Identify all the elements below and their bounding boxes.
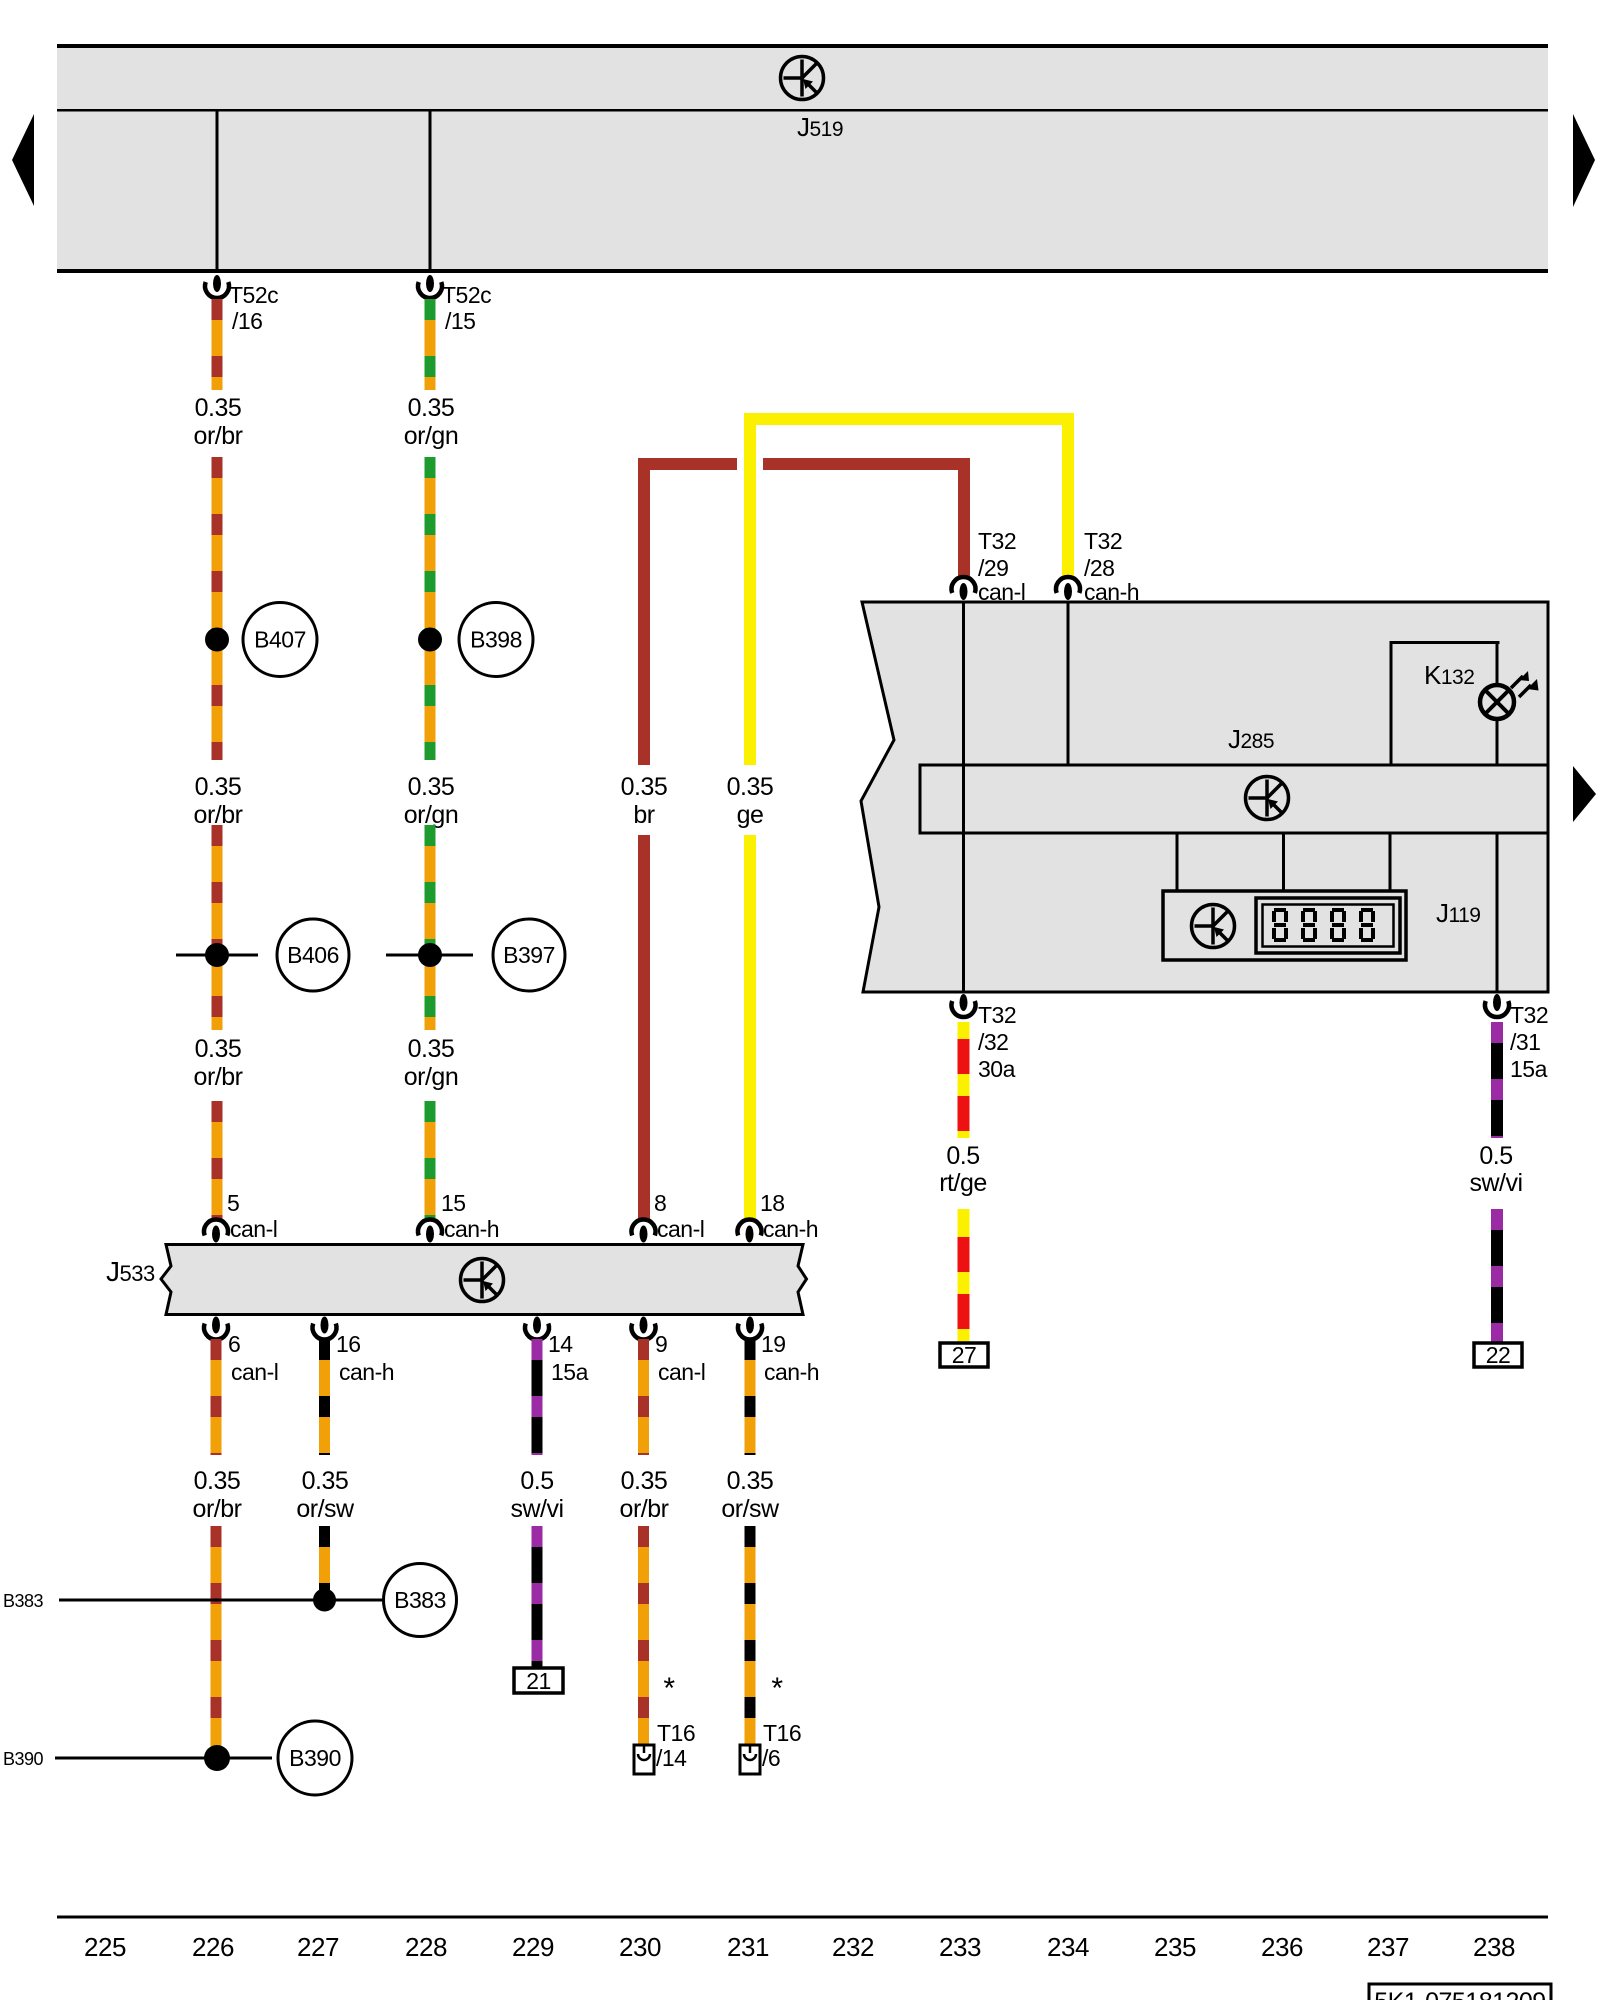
connector J533 pin 9 [632,1317,656,1340]
K132 sub-box top line [1390,641,1500,644]
page continuation arrow right mid [1573,766,1596,822]
svg-text:27: 27 [952,1342,977,1368]
svg-text:or/br: or/br [194,801,243,829]
svg-text:0.35: 0.35 [621,1467,668,1495]
wire 0.35 or/br seg3 [212,825,223,1030]
wire 0.5 sw/vi below J533 seg1 [532,1339,543,1455]
svg-text:0.35: 0.35 [194,1467,241,1495]
wire 0.35 or/sw pin19 seg1 [745,1339,756,1455]
svg-text:5K1-075181209: 5K1-075181209 [1374,1988,1545,2000]
svg-text:230: 230 [619,1932,661,1962]
connector T52c/15 [418,275,442,298]
svg-text:/15: /15 [445,308,475,334]
svg-text:234: 234 [1047,1932,1089,1962]
node circle B398 [459,603,533,677]
wire 0.5 sw/vi below J533 seg2 [532,1526,543,1669]
svg-text:0.35: 0.35 [195,394,242,422]
net line B390 [55,1757,272,1760]
svg-text:*: * [663,1672,675,1705]
bottom current track rail [57,1916,1548,1919]
wire 0.35 br drop to T32/29 [958,458,970,578]
wire 0.35 br horizontal left part [638,458,737,470]
svg-text:30a: 30a [978,1056,1016,1082]
node circle B397 [493,919,565,991]
svg-text:226: 226 [192,1932,234,1962]
J119 display inner frame [1263,905,1394,947]
wire 0.5 sw/vi seg1 [1491,1022,1503,1138]
wire 0.35 or/br pin9 seg1 [638,1339,649,1455]
svg-text:sw/vi: sw/vi [510,1495,563,1523]
svg-text:235: 235 [1154,1932,1196,1962]
connector J533 pin 8 [632,1219,656,1242]
node B397 stub line [386,954,473,957]
wire 0.35 or/gn seg4 [425,1101,436,1221]
connector T32/29 [952,577,976,600]
svg-text:can-h: can-h [763,1216,818,1242]
wire 0.35 or/br below J533 seg2 [211,1526,222,1752]
svg-text:/31: /31 [1510,1029,1540,1055]
wire 0.35 or/gn seg2 [425,457,436,760]
svg-text:0.35: 0.35 [727,1467,774,1495]
J119 connector line 3 [1389,833,1392,891]
svg-text:can-l: can-l [978,579,1025,605]
svg-text:B383: B383 [3,1591,44,1611]
connector T32/32 [952,994,976,1017]
svg-text:B406: B406 [287,942,339,968]
svg-text:B407: B407 [254,627,306,653]
node circle B383 [384,1564,457,1637]
svg-text:14: 14 [548,1331,573,1357]
wire 0.35 ge vertical lower [744,835,756,1221]
J119 display outer frame [1256,898,1400,953]
part number box [1369,1984,1551,2000]
J519 internal wire to T52c/15 [429,110,432,273]
svg-text:0.35: 0.35 [408,1035,455,1063]
svg-text:0.35: 0.35 [195,1035,242,1063]
svg-text:sw/vi: sw/vi [1469,1169,1522,1197]
connector T16/6 box [740,1745,760,1774]
svg-text:or/sw: or/sw [296,1495,355,1523]
svg-text:J533: J533 [106,1256,155,1287]
J119 connector line 1 [1176,833,1179,891]
svg-text:/32: /32 [978,1029,1008,1055]
svg-text:225: 225 [84,1932,126,1962]
junction dot B397 [418,943,442,967]
CAN-bus symbol in J533 [461,1259,504,1302]
svg-text:0.35: 0.35 [302,1467,349,1495]
J285 inner strip top line [920,764,1548,767]
wire 0.35 br vertical lower [638,835,650,1221]
svg-text:0.35: 0.35 [621,773,668,801]
svg-text:232: 232 [832,1932,874,1962]
svg-text:B390: B390 [3,1749,44,1769]
K132 sub-box left line [1390,641,1393,765]
J519 bottom border [57,269,1548,273]
CAN-bus symbol in J519 [781,57,824,100]
wire 0.35 ge drop to T32/28 [1062,413,1074,578]
connector T52c/16 [205,275,229,298]
svg-text:0.5: 0.5 [1479,1142,1512,1170]
wire 0.35 or/br seg4 [212,1101,223,1221]
svg-text:*: * [771,1672,783,1705]
svg-text:238: 238 [1473,1932,1515,1962]
svg-text:233: 233 [939,1932,981,1962]
svg-text:or/sw: or/sw [721,1495,780,1523]
svg-text:231: 231 [727,1932,769,1962]
svg-text:T16: T16 [763,1720,801,1746]
svg-text:18: 18 [760,1190,785,1216]
svg-text:0.5: 0.5 [946,1142,979,1170]
J519 top border [57,44,1548,48]
svg-text:0.35: 0.35 [195,773,242,801]
svg-text:/14: /14 [656,1745,687,1771]
svg-text:can-h: can-h [764,1359,819,1385]
svg-text:T32: T32 [978,1002,1016,1028]
svg-text:19: 19 [761,1331,786,1357]
J285 line to T32/31 [1496,833,1499,992]
svg-text:22: 22 [1486,1342,1511,1368]
junction dot B398 [418,628,442,652]
connector J533 pin 15 [418,1219,442,1242]
wire 0.5 sw/vi seg2 [1491,1209,1503,1343]
svg-text:/28: /28 [1084,555,1114,581]
J285 inner strip bottom line [920,832,1548,835]
CAN-bus symbol in J119 [1192,905,1235,948]
svg-text:or/gn: or/gn [404,422,458,450]
svg-text:T32: T32 [1510,1002,1548,1028]
svg-text:or/br: or/br [193,1495,242,1523]
svg-text:16: 16 [336,1331,361,1357]
wire 0.5 rt/ge seg1 [958,1022,970,1138]
CAN-bus symbol in J285 [1246,777,1289,820]
svg-text:0.35: 0.35 [408,773,455,801]
svg-text:5: 5 [227,1190,239,1216]
svg-text:T32: T32 [1084,528,1122,554]
connector T16/14 box [634,1745,654,1774]
svg-text:can-h: can-h [339,1359,394,1385]
wire 0.35 or/br seg2 [212,457,223,760]
svg-text:or/br: or/br [620,1495,669,1523]
J285 line can-l through [962,602,965,992]
wire 0.35 or/br pin9 seg2 [638,1526,649,1745]
svg-text:can-h: can-h [1084,579,1139,605]
svg-text:or/br: or/br [194,1063,243,1091]
svg-text:T16: T16 [657,1720,695,1746]
terminal box 21 [514,1668,563,1693]
junction dot B383 [313,1589,336,1612]
junction dot B407 [205,628,229,652]
node circle B390 [278,1721,352,1795]
svg-text:can-l: can-l [657,1216,704,1242]
connector J533 pin 18 [738,1219,762,1242]
svg-text:9: 9 [655,1331,667,1357]
svg-text:or/gn: or/gn [404,801,458,829]
connector T32/28 [1056,577,1080,600]
control module J533 body [161,1245,807,1315]
page continuation arrow left [12,114,34,206]
terminal box 22 [1474,1343,1522,1367]
svg-text:0.35: 0.35 [727,773,774,801]
svg-text:0.5: 0.5 [520,1467,553,1495]
net line B383 [59,1599,384,1602]
wire 0.35 or/gn seg1 [425,299,436,390]
control module J519 body [57,45,1548,273]
wire 0.5 rt/ge seg2 [958,1209,970,1343]
wire 0.35 ge horizontal [744,413,1074,425]
svg-text:T32: T32 [978,528,1016,554]
svg-text:236: 236 [1261,1932,1303,1962]
wire 0.35 or/gn seg3 [425,825,436,1030]
svg-text:B383: B383 [394,1587,446,1613]
wire 0.35 br vertical upper [638,458,650,765]
svg-text:B398: B398 [470,627,522,653]
K132 sub-box right line upper [1496,641,1499,685]
K132 line below lamp [1496,721,1499,765]
connector J533 pin 5 [204,1219,228,1242]
svg-text:B390: B390 [289,1745,341,1771]
connector J533 pin 19 [738,1317,762,1340]
svg-text:/6: /6 [762,1745,780,1771]
svg-text:15: 15 [441,1190,466,1216]
wire 0.35 ge vertical upper [744,413,756,765]
svg-text:br: br [633,801,654,829]
terminal box 27 [940,1343,988,1367]
connector J533 pin 14 [525,1317,549,1340]
connector T32/31 [1485,994,1509,1017]
junction dot B390 [204,1745,230,1771]
svg-text:0.35: 0.35 [408,394,455,422]
node circle B407 [243,603,317,677]
seven-segment 8888 [1272,908,1375,942]
warning lamp K132 [1480,671,1539,719]
svg-text:rt/ge: rt/ge [939,1169,987,1197]
svg-text:or/br: or/br [194,422,243,450]
control module J285 body [861,602,1548,992]
svg-text:/29: /29 [978,555,1008,581]
J285 line can-h [1067,602,1070,765]
wire 0.35 br horizontal right part [763,458,970,470]
wire 0.35 or/sw below J533 seg2 [319,1526,330,1592]
svg-text:228: 228 [405,1932,447,1962]
connector J533 pin 6 [204,1317,228,1340]
svg-text:can-l: can-l [658,1359,705,1385]
node circle B406 [277,919,349,991]
wire 0.35 or/br seg1 [212,299,223,390]
svg-text:can-h: can-h [444,1216,499,1242]
svg-text:or/gn: or/gn [404,1063,458,1091]
display unit J119 box [1163,891,1406,960]
svg-text:15a: 15a [1510,1056,1548,1082]
svg-text:229: 229 [512,1932,554,1962]
J119 connector line 2 [1282,833,1285,891]
J285 inner strip left line [919,764,922,835]
connector J533 pin 16 [313,1317,337,1340]
svg-text:ge: ge [737,801,764,829]
page continuation arrow right top [1573,114,1595,207]
node B406 stub line [176,954,258,957]
svg-text:can-l: can-l [230,1216,277,1242]
svg-text:227: 227 [297,1932,339,1962]
svg-text:8: 8 [654,1190,666,1216]
J519 internal wire to T52c/16 [216,110,219,273]
svg-text:B397: B397 [503,942,555,968]
svg-text:237: 237 [1367,1932,1409,1962]
svg-text:T52c: T52c [229,282,278,308]
svg-text:15a: 15a [551,1359,589,1385]
svg-text:6: 6 [228,1331,240,1357]
J519 inner divider line [57,109,1548,112]
wire 0.35 or/sw pin19 seg2 [745,1526,756,1745]
junction dot B406 [205,943,229,967]
svg-text:/16: /16 [232,308,262,334]
wire 0.35 or/sw below J533 seg1 [319,1339,330,1455]
svg-text:T52c: T52c [442,282,491,308]
wire 0.35 or/br below J533 seg1 [211,1339,222,1455]
svg-text:can-l: can-l [231,1359,278,1385]
svg-text:21: 21 [526,1668,551,1694]
